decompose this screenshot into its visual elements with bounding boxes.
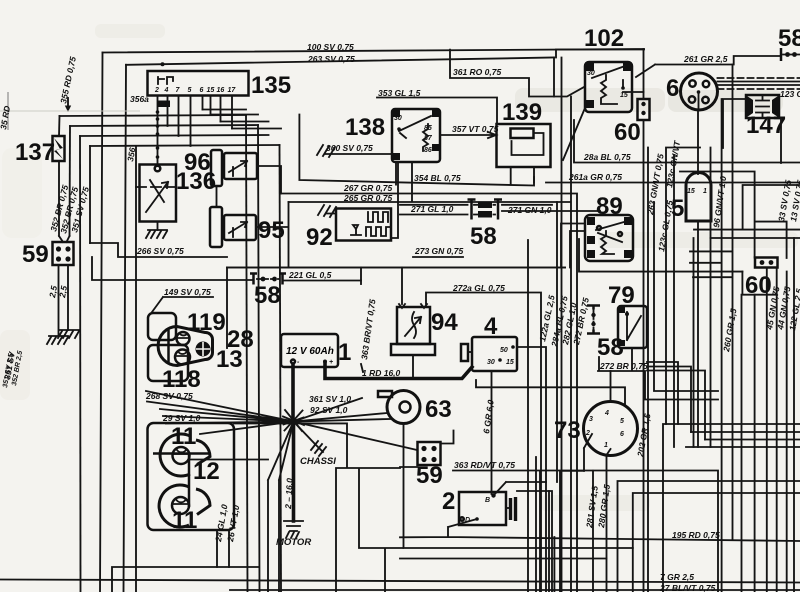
svg-text:B: B [485, 497, 490, 504]
wire coil D [400, 519, 800, 541]
svg-text:12 V 60Ah: 12 V 60Ah [286, 346, 334, 357]
ground under 136 [146, 230, 167, 238]
svg-text:58: 58 [778, 25, 800, 52]
svg-text:272 BR 0,75: 272 BR 0,75 [599, 361, 648, 371]
ground [47, 336, 68, 344]
lamp housing 11/12 [148, 423, 235, 530]
wire 356 bus [60, 115, 247, 116]
wire bottom right staircase [618, 481, 800, 592]
svg-text:267 GR 0,75: 267 GR 0,75 [343, 183, 392, 193]
wire [70, 125, 258, 126]
svg-text:95: 95 [258, 217, 285, 244]
svg-text:2: 2 [585, 430, 590, 437]
wire 58 vertical fuse right of 4 [587, 306, 600, 334]
capacitor on coil [506, 507, 511, 509]
svg-text:2: 2 [154, 87, 159, 94]
wire bus 58 top [227, 267, 565, 269]
svg-text:15: 15 [620, 92, 628, 99]
svg-text:1: 1 [604, 442, 608, 449]
lamp high beam dot [196, 342, 211, 357]
wire long 272a bus [227, 267, 565, 269]
wire [80, 135, 269, 136]
node chain dots [156, 110, 160, 114]
star fan left [146, 391, 294, 434]
svg-text:5: 5 [620, 418, 624, 425]
wire right column bundle [694, 65, 795, 592]
svg-text:29 SV 1,0: 29 SV 1,0 [162, 413, 201, 423]
wire right comb [663, 424, 800, 592]
fuse 60 right [755, 258, 778, 268]
wire coil B [494, 482, 547, 592]
svg-text:135: 135 [251, 72, 291, 99]
svg-text:60: 60 [614, 119, 641, 146]
svg-text:2 – 16,0: 2 – 16,0 [283, 478, 295, 510]
svg-text:363 RD/VT 0,75: 363 RD/VT 0,75 [454, 460, 515, 470]
ground for 92 [318, 205, 336, 217]
svg-text:+: + [329, 359, 333, 366]
wire 263 SV bus [126, 58, 554, 65]
lamp unit 119/118 sealed beam [158, 327, 212, 366]
svg-text:30: 30 [587, 70, 595, 77]
wire left of 89 [561, 224, 585, 268]
battery 1 [281, 334, 338, 367]
svg-text:73: 73 [554, 417, 581, 444]
wire 100 SV bus [103, 49, 645, 53]
wire [124, 65, 127, 592]
left edge artifacts [7, 92, 9, 130]
lamp 11 upper [160, 434, 190, 476]
wire from 50 [517, 347, 546, 482]
svg-text:5: 5 [188, 87, 192, 94]
svg-text:86: 86 [424, 147, 432, 154]
svg-text:139: 139 [502, 99, 542, 126]
svg-text:27 BL/VT 0,75: 27 BL/VT 0,75 [659, 583, 716, 592]
svg-text:13: 13 [216, 346, 243, 373]
svg-text:273 GN 0,75: 273 GN 0,75 [414, 246, 463, 256]
svg-text:CHASSI: CHASSI [300, 456, 336, 467]
wire from 15 down to coil B [491, 371, 493, 494]
svg-text:50: 50 [500, 347, 508, 354]
svg-text:102: 102 [584, 25, 624, 52]
wire gauge96 to bus [217, 166, 282, 207]
svg-text:6: 6 [666, 75, 679, 102]
svg-text:2: 2 [442, 488, 455, 515]
svg-text:1 RD 16,0: 1 RD 16,0 [362, 368, 401, 378]
svg-text:6: 6 [200, 87, 204, 94]
svg-text:30: 30 [487, 359, 495, 366]
node dot on 263 bus [161, 62, 165, 66]
svg-text:7 GR 2,5: 7 GR 2,5 [660, 572, 694, 582]
svg-text:30: 30 [394, 115, 402, 122]
svg-text:137: 137 [15, 139, 55, 166]
connector 135 [148, 71, 249, 96]
wire 102 left verticals [554, 49, 644, 592]
svg-text:11: 11 [171, 423, 196, 450]
svg-text:354 BL 0,75: 354 BL 0,75 [414, 173, 461, 183]
svg-text:58: 58 [470, 223, 497, 250]
dashed bundle right of 6 [718, 77, 800, 79]
svg-text:361 RO 0,75: 361 RO 0,75 [453, 67, 501, 77]
gauge 96 [211, 150, 222, 186]
svg-text:195 RD 0,75: 195 RD 0,75 [672, 530, 720, 540]
svg-text:272a GL 0,75: 272a GL 0,75 [452, 283, 505, 293]
svg-text:63: 63 [425, 396, 452, 423]
svg-text:28a BL 0,75: 28a BL 0,75 [583, 152, 631, 162]
wire 2.5 leads to ground [59, 265, 69, 336]
svg-text:221 GL 0,5: 221 GL 0,5 [288, 270, 332, 280]
svg-text:94: 94 [431, 309, 458, 336]
svg-text:138: 138 [345, 114, 385, 141]
wire [90, 145, 280, 146]
svg-text:58: 58 [254, 282, 281, 309]
node star chassis point [291, 364, 295, 521]
fuse 60a vertical [638, 99, 650, 120]
svg-text:4: 4 [164, 87, 169, 94]
svg-text:MOTOR: MOTOR [276, 537, 311, 548]
svg-text:92 SV 1,0: 92 SV 1,0 [310, 405, 348, 415]
ground MOTOR [284, 521, 303, 538]
svg-text:353 GL 1,5: 353 GL 1,5 [378, 88, 421, 98]
wire 352/351 column [59, 146, 136, 592]
pin stubs of 135 [158, 96, 233, 166]
svg-text:15: 15 [207, 87, 215, 94]
lamp 11 lower [159, 485, 189, 527]
wire right staircase upper [647, 362, 705, 440]
enclosure 89/60 [579, 239, 742, 272]
node left corner [100, 53, 103, 592]
svg-text:118: 118 [162, 366, 201, 393]
svg-text:5: 5 [671, 195, 684, 222]
svg-text:271 GN 1,0: 271 GN 1,0 [507, 205, 552, 215]
svg-text:361 SV 1,0: 361 SV 1,0 [309, 394, 351, 404]
svg-text:1: 1 [703, 188, 707, 195]
wire gauge95 to bus [256, 202, 289, 268]
svg-text:12: 12 [193, 458, 220, 485]
svg-text:59: 59 [22, 241, 49, 268]
svg-text:15: 15 [687, 188, 695, 195]
svg-text:123 G: 123 G [780, 89, 800, 99]
svg-text:266 SV 0,75: 266 SV 0,75 [136, 246, 184, 256]
svg-text:1: 1 [338, 339, 351, 366]
svg-text:100 SV 0,75: 100 SV 0,75 [307, 42, 354, 52]
svg-text:92: 92 [306, 224, 333, 251]
ground CHASSI [311, 441, 326, 456]
svg-text:149 SV 0,75: 149 SV 0,75 [164, 287, 211, 297]
svg-text:4: 4 [604, 410, 609, 417]
ground [58, 330, 79, 338]
wire bottom-left horizontals [112, 567, 258, 592]
wire 266 SV [90, 243, 254, 280]
key symbol [461, 344, 468, 361]
connector 356a pad [157, 101, 170, 108]
svg-text:15: 15 [506, 359, 514, 366]
wire right edge corners [680, 172, 787, 592]
svg-text:16: 16 [217, 87, 225, 94]
svg-text:263 SV 0,75: 263 SV 0,75 [307, 54, 355, 64]
svg-text:17: 17 [228, 87, 237, 94]
svg-text:3: 3 [589, 416, 593, 423]
svg-text:261 GR 2,5: 261 GR 2,5 [683, 54, 728, 64]
svg-text:356a: 356a [130, 94, 149, 104]
svg-text:6: 6 [620, 431, 624, 438]
svg-text:261a GR 0,75: 261a GR 0,75 [568, 172, 622, 182]
wire steps from pins 6,15,16,17 [203, 110, 282, 129]
wire bottom mid verticals [528, 97, 571, 592]
